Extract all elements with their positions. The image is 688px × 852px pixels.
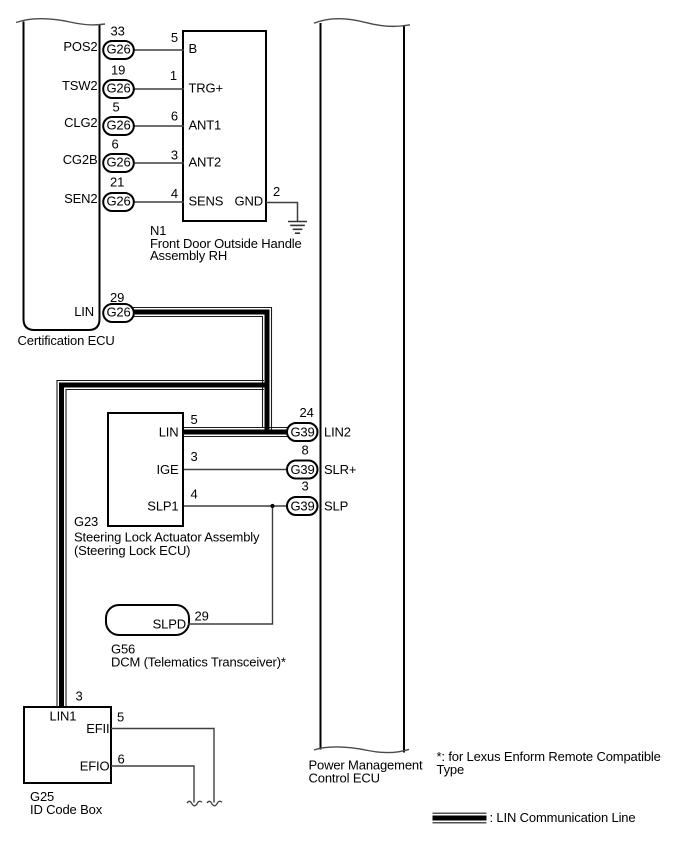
svg-text:G39: G39 — [290, 425, 314, 440]
svg-text:TRG+: TRG+ — [189, 81, 223, 96]
svg-text:ANT2: ANT2 — [189, 155, 222, 170]
break squiggle at EFIO wire end — [187, 801, 202, 806]
connector G26 pin 6 CG2B oval — [103, 154, 134, 172]
svg-text:21: 21 — [110, 175, 124, 190]
svg-text:G39: G39 — [290, 462, 314, 477]
ECU U1 Certification ECU outline (open wavy top) — [16, 19, 105, 330]
component N1 Front Door Outside Handle Assembly RH box — [183, 31, 266, 221]
wire LIN thick: branch left and down to LIN1 — [62, 385, 268, 707]
component G23 Steering Lock Actuator Assembly box — [108, 413, 183, 526]
svg-text:B: B — [189, 41, 198, 56]
wire IGE G23-3 to G39-8 SLR+ — [184, 469, 288, 471]
wire SEN2 G26-21 to N1 pin 4 SENS — [130, 201, 184, 203]
ECU U2 Power Management Control ECU column — [314, 19, 410, 753]
connector G26 pin 33 POS2 oval — [103, 41, 134, 59]
svg-text:GND: GND — [235, 194, 263, 209]
svg-text:SLR+: SLR+ — [324, 462, 356, 477]
svg-text:3: 3 — [171, 148, 178, 163]
svg-text:6: 6 — [171, 109, 178, 124]
svg-text:Control ECU: Control ECU — [309, 771, 380, 786]
svg-text:G26: G26 — [106, 155, 130, 170]
wire EFII G25-5 to break — [111, 729, 214, 803]
svg-text:5: 5 — [171, 30, 178, 45]
svg-text:2: 2 — [273, 184, 280, 199]
wire POS2 G26-33 to N1 pin 5 B — [130, 49, 184, 51]
svg-text:6: 6 — [112, 137, 119, 152]
svg-text:G23: G23 — [74, 514, 98, 529]
wire LIN flank: LIN2 row upper — [184, 427, 288, 429]
svg-text:ID Code Box: ID Code Box — [30, 802, 103, 817]
svg-text:29: 29 — [195, 609, 209, 624]
svg-text:: LIN Communication Line: : LIN Communication Line — [490, 810, 636, 825]
svg-text:29: 29 — [110, 290, 124, 305]
wire EFIO G25-6 to break — [111, 766, 194, 803]
component G56 DCM (Telematics Transceiver) box — [106, 605, 189, 635]
LIN bus thin flank lines — [57, 308, 288, 708]
svg-text:Assembly RH: Assembly RH — [150, 248, 227, 263]
legend LIN line sample — [433, 813, 487, 823]
svg-text:4: 4 — [171, 186, 178, 201]
svg-text:LIN2: LIN2 — [324, 425, 351, 440]
svg-text:24: 24 — [300, 405, 314, 420]
wire TSW2 G26-19 to N1 pin 1 TRG+ — [130, 88, 184, 90]
wire N1 pin 2 GND to ground — [266, 203, 298, 222]
svg-text:DCM (Telematics Transceiver)*: DCM (Telematics Transceiver)* — [111, 655, 286, 670]
wire SLP1 G23-4 to G39-3 SLP — [184, 505, 288, 507]
svg-text:TSW2: TSW2 — [62, 78, 98, 93]
wire CG2B G26-6 to N1 pin 3 ANT2 — [130, 162, 184, 164]
wire LIN thick: G23 LIN row to G39 LIN2 — [184, 430, 288, 435]
svg-text:3: 3 — [191, 449, 198, 464]
wire SLPD G56-29 horizontal run — [188, 623, 273, 625]
wire SLP branch down to SLPD — [272, 506, 274, 624]
svg-text:5: 5 — [191, 412, 198, 427]
svg-text:5: 5 — [113, 100, 120, 115]
svg-text:IGE: IGE — [157, 462, 179, 477]
svg-text:EFII: EFII — [86, 721, 109, 736]
svg-text:G26: G26 — [106, 42, 130, 57]
svg-text:EFIO: EFIO — [80, 759, 110, 774]
connector G39 pin 3 SLP oval — [287, 497, 318, 515]
wire CLG2 G26-5 to N1 pin 6 ANT1 — [130, 125, 184, 127]
svg-text:SEN2: SEN2 — [64, 191, 97, 206]
svg-text:LIN: LIN — [159, 425, 179, 440]
svg-text:3: 3 — [302, 479, 309, 494]
wire LIN flank: branch to ID code box outer — [57, 381, 264, 708]
svg-text:SLP: SLP — [324, 499, 348, 514]
svg-text:8: 8 — [302, 443, 309, 458]
connector G39 pin 24 LIN2 oval — [287, 423, 318, 441]
connector G26 pin 19 TSW2 oval — [103, 80, 134, 98]
svg-text:Certification ECU: Certification ECU — [18, 333, 115, 348]
connector G39 pin 8 SLR+ oval — [287, 461, 318, 479]
wire LIN thick: G26-29 right and down — [130, 312, 267, 432]
component G25 ID Code Box box — [24, 707, 111, 783]
svg-text:LIN: LIN — [74, 304, 94, 319]
svg-text:LIN1: LIN1 — [50, 709, 77, 724]
LIN bus thick lines — [62, 312, 289, 707]
svg-text:Type: Type — [437, 762, 465, 777]
svg-text:G26: G26 — [106, 194, 130, 209]
wire LIN flank: LIN2 row lower — [184, 436, 288, 438]
connector G26 pin 5 CLG2 oval — [103, 117, 134, 135]
svg-text:3: 3 — [76, 689, 83, 704]
connector G26 pin 29 LIN oval — [103, 304, 134, 322]
svg-text:(Steering Lock ECU): (Steering Lock ECU) — [74, 543, 190, 558]
svg-text:33: 33 — [111, 24, 125, 39]
svg-text:POS2: POS2 — [63, 39, 97, 54]
svg-text:G26: G26 — [106, 305, 130, 320]
svg-text:4: 4 — [191, 487, 198, 502]
wire LIN flank: branch to ID code box inner — [66, 390, 264, 708]
svg-text:CLG2: CLG2 — [64, 115, 97, 130]
svg-text:5: 5 — [117, 710, 124, 725]
svg-text:SENS: SENS — [189, 194, 224, 209]
svg-text:6: 6 — [118, 752, 125, 767]
svg-text:ANT1: ANT1 — [189, 118, 222, 133]
svg-text:G26: G26 — [106, 81, 130, 96]
wire LIN flank: G26-29 run lower — [130, 317, 263, 428]
junction dot SLP branch — [270, 504, 274, 508]
svg-text:SLPD: SLPD — [153, 617, 186, 632]
svg-text:19: 19 — [111, 63, 125, 78]
wire LIN flank: G26-29 run upper — [130, 308, 272, 432]
svg-text:CG2B: CG2B — [63, 152, 98, 167]
svg-text:*: for Lexus Enform Remote Com: *: for Lexus Enform Remote Compatible — [437, 749, 661, 764]
svg-text:G26: G26 — [106, 118, 130, 133]
svg-text:SLP1: SLP1 — [147, 499, 178, 514]
svg-text:1: 1 — [170, 68, 177, 83]
break squiggle at EFII wire end — [207, 801, 222, 806]
connector G26 pin 21 SEN2 oval — [103, 193, 134, 211]
svg-text:G39: G39 — [290, 499, 314, 514]
ground symbol at N1 GND — [288, 222, 307, 234]
